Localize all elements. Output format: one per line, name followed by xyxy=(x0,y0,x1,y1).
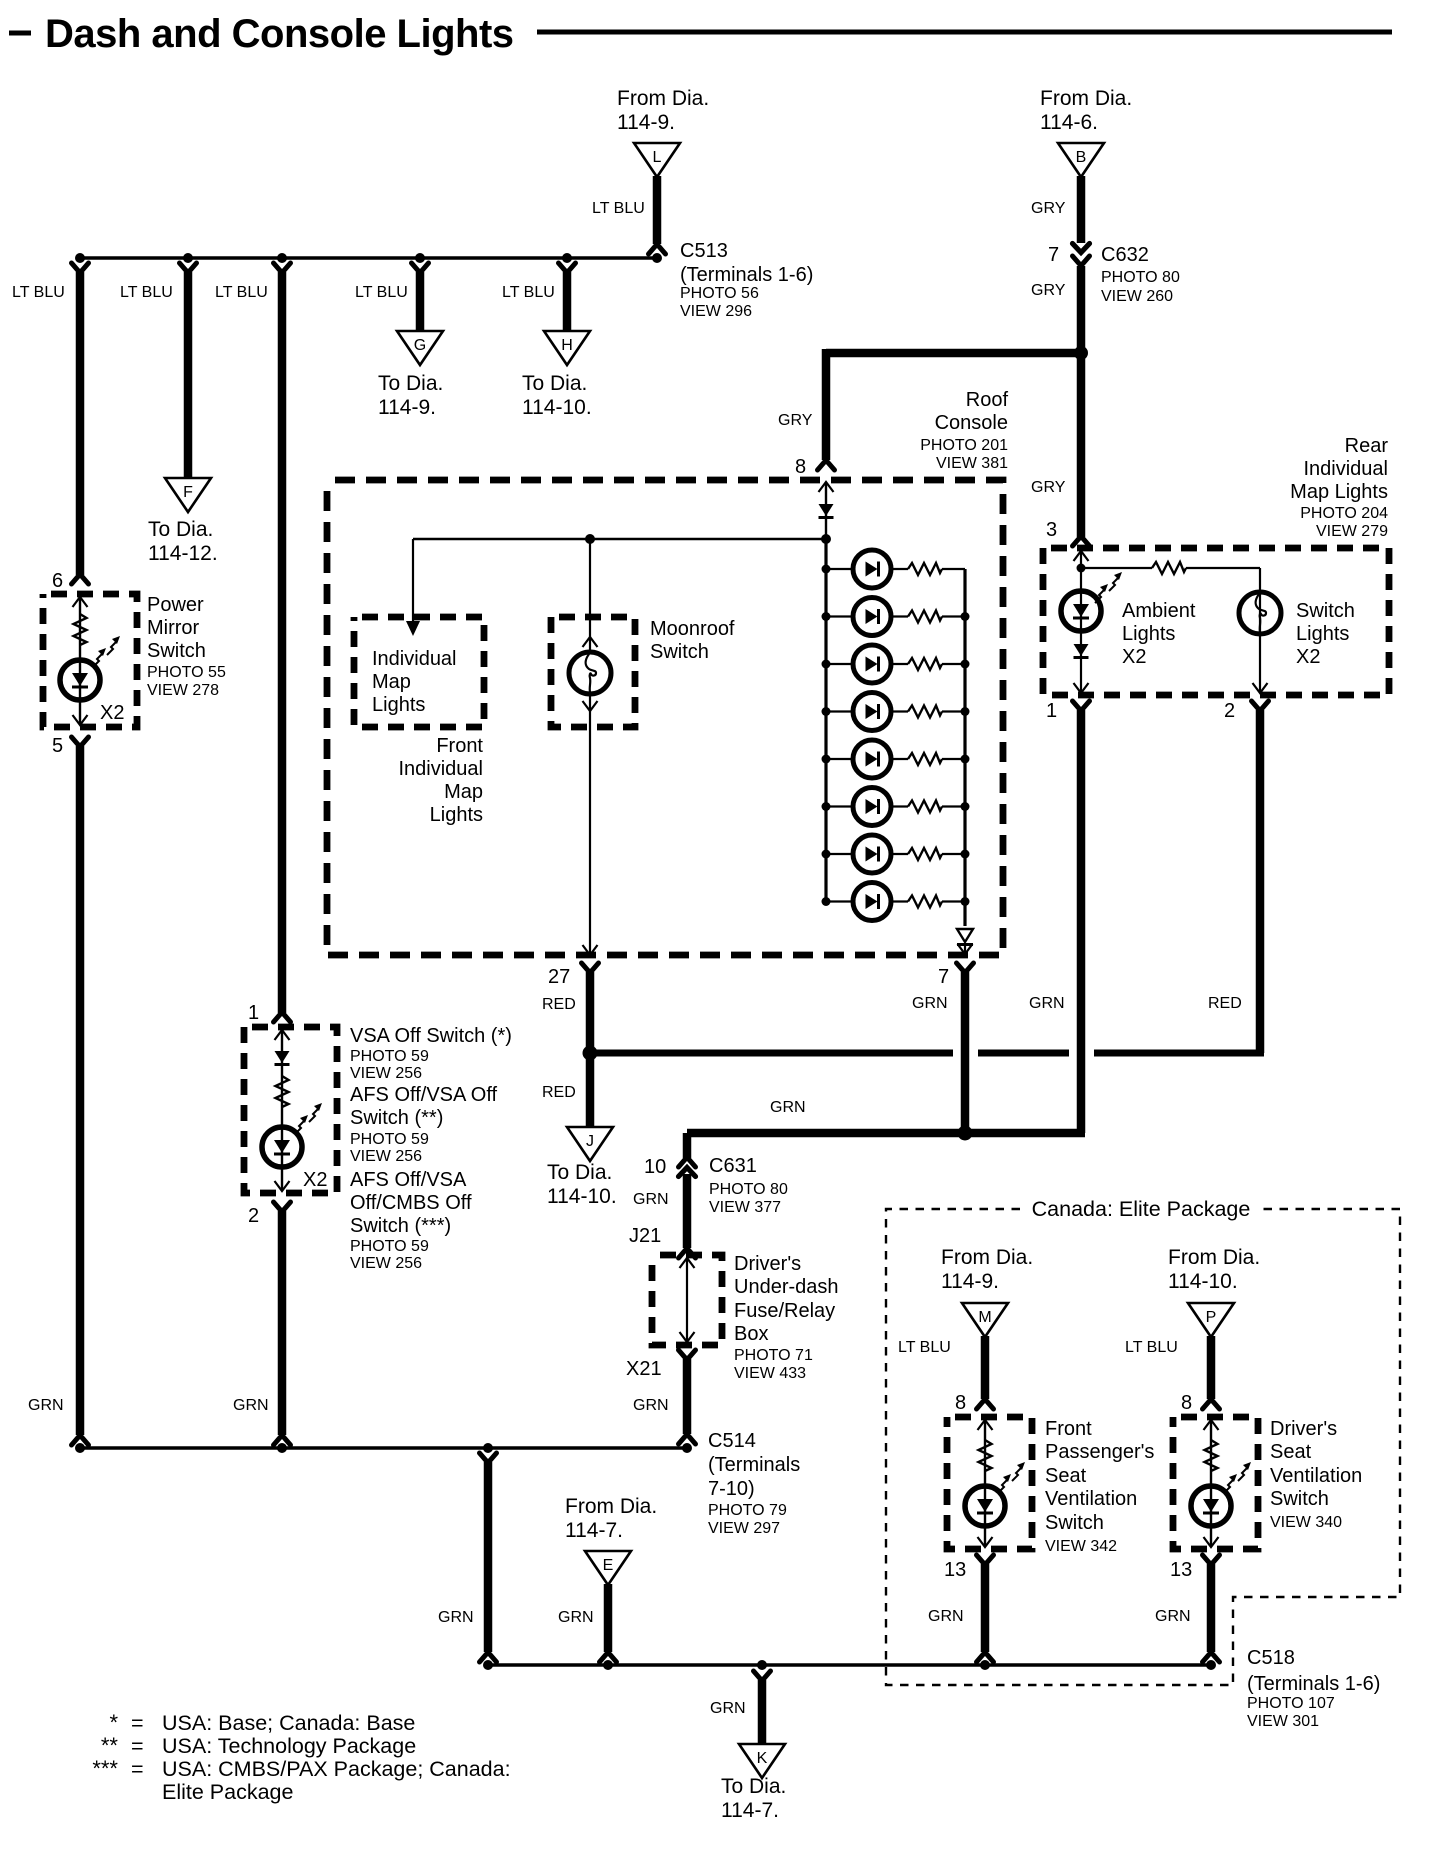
svg-text:114-7.: 114-7. xyxy=(565,1519,623,1542)
svg-text:2: 2 xyxy=(248,1205,259,1227)
wire RED from pin 2 down xyxy=(1208,710,1260,1053)
connector C631 terminal 10 xyxy=(644,1156,696,1178)
svg-text:7: 7 xyxy=(938,966,949,988)
svg-text:114-9.: 114-9. xyxy=(941,1270,999,1293)
svg-text:Map: Map xyxy=(372,671,411,693)
label Front Passenger's Seat Ventilation Switch xyxy=(1045,1418,1154,1555)
wire VSA pin 2 to GRN bus xyxy=(233,1211,291,1445)
label C518 xyxy=(1247,1647,1380,1730)
svg-text:PHOTO 107: PHOTO 107 xyxy=(1247,1695,1335,1712)
svg-text:GRY: GRY xyxy=(1031,282,1066,299)
svg-text:7: 7 xyxy=(1048,244,1059,266)
svg-text:RED: RED xyxy=(1208,995,1242,1012)
internal feed line to map lights and moonroof xyxy=(413,534,831,544)
svg-text:PHOTO 204: PHOTO 204 xyxy=(1300,505,1388,522)
svg-text:Lights: Lights xyxy=(1122,623,1175,645)
wire GRN bus down to bottom bus xyxy=(438,1453,497,1662)
label VSA Off Switch variants xyxy=(350,1025,512,1272)
svg-text:C513: C513 xyxy=(680,240,728,262)
label Driver's Under-dash Fuse/Relay Box xyxy=(734,1253,839,1382)
svg-text:GRY: GRY xyxy=(1031,479,1066,496)
Rear Individual Map Lights box xyxy=(1043,548,1389,695)
wire from L to C513 (LT BLU) xyxy=(592,176,666,254)
fuse box internal link xyxy=(680,1257,695,1343)
Power Mirror Switch box xyxy=(43,594,137,727)
svg-text:(Terminals 1-6): (Terminals 1-6) xyxy=(680,264,813,286)
svg-text:Under-dash: Under-dash xyxy=(734,1276,839,1298)
LED 8 with resistor xyxy=(822,883,970,921)
wire drop 3 (LT BLU) to VSA Off Switch pin 1 xyxy=(215,263,291,1013)
svg-text:Individual: Individual xyxy=(372,648,457,670)
svg-text:PHOTO 71: PHOTO 71 xyxy=(734,1347,813,1364)
svg-text:J21: J21 xyxy=(629,1225,661,1247)
wire RED horizontal with crossovers xyxy=(594,1050,1264,1057)
svg-text:PHOTO 56: PHOTO 56 xyxy=(680,285,759,302)
svg-text:VIEW 342: VIEW 342 xyxy=(1045,1538,1117,1555)
LED 7 with resistor xyxy=(822,835,970,873)
svg-text:C632: C632 xyxy=(1101,244,1149,266)
connector triangle F (To Dia. 114-12.) xyxy=(165,478,211,512)
wire RED to J xyxy=(542,1053,590,1126)
wire from bottom bus to K (GRN) xyxy=(710,1671,771,1743)
svg-text:Map Lights: Map Lights xyxy=(1290,481,1388,503)
connector C632 terminal 7 xyxy=(1048,244,1090,267)
svg-text:*: * xyxy=(109,1710,118,1735)
svg-text:6: 6 xyxy=(52,570,63,592)
svg-text:VIEW 256: VIEW 256 xyxy=(350,1255,422,1272)
Power Mirror Switch internals (resistor + LED X2) xyxy=(60,596,124,725)
svg-text:Individual: Individual xyxy=(398,758,483,780)
front passenger vent switch internals (resistor + LED) xyxy=(965,1419,1025,1547)
LED 4 with resistor xyxy=(822,693,970,731)
svg-text:Canada: Elite Package: Canada: Elite Package xyxy=(1032,1197,1251,1221)
svg-text:AFS Off/VSA Off: AFS Off/VSA Off xyxy=(350,1084,498,1106)
wire GRY branch to Roof Console pin 8 xyxy=(778,349,1081,460)
connector triangle E (From Dia. 114-7.) xyxy=(565,1495,657,1542)
pin 3 of Rear Individual Map Lights xyxy=(1046,519,1090,546)
svg-text:PHOTO 59: PHOTO 59 xyxy=(350,1048,429,1065)
svg-text:Driver's: Driver's xyxy=(1270,1418,1337,1440)
svg-text:Lights: Lights xyxy=(430,804,483,826)
label C631 xyxy=(709,1155,788,1216)
junction at GRY split xyxy=(1074,346,1088,360)
svg-text:13: 13 xyxy=(944,1559,966,1581)
Moonroof Switch box xyxy=(551,617,635,727)
svg-text:USA: Base; Canada: Base: USA: Base; Canada: Base xyxy=(162,1711,415,1735)
svg-text:Switch: Switch xyxy=(650,641,709,663)
svg-text:1: 1 xyxy=(1046,700,1057,722)
svg-text:Ventilation: Ventilation xyxy=(1045,1488,1137,1510)
title: Dash and Console Lights xyxy=(9,12,1392,56)
svg-text:LT BLU: LT BLU xyxy=(355,284,408,301)
label Roof Console xyxy=(920,389,1008,472)
svg-text:Front: Front xyxy=(1045,1418,1092,1440)
svg-text:GRN: GRN xyxy=(1155,1608,1191,1625)
svg-text:5: 5 xyxy=(52,735,63,757)
wire: GRN bus to C514 xyxy=(80,1446,687,1450)
svg-text:GRN: GRN xyxy=(558,1609,594,1626)
svg-text:Moonroof: Moonroof xyxy=(650,618,735,640)
svg-text:GRN: GRN xyxy=(928,1608,964,1625)
label C514 xyxy=(708,1430,800,1537)
label Individual Map Lights xyxy=(372,648,457,716)
svg-text:Map: Map xyxy=(444,781,483,803)
svg-text:USA: CMBS/PAX Package; Canada:: USA: CMBS/PAX Package; Canada: xyxy=(162,1757,511,1781)
svg-text:To Dia.: To Dia. xyxy=(721,1775,786,1798)
junction dots on bottom bus xyxy=(483,1660,1216,1670)
svg-text:Box: Box xyxy=(734,1323,768,1345)
LED 2 with resistor xyxy=(822,598,970,636)
svg-text:VSA Off Switch (*): VSA Off Switch (*) xyxy=(350,1025,512,1047)
svg-text:**: ** xyxy=(101,1733,119,1758)
svg-text:(Terminals 1-6): (Terminals 1-6) xyxy=(1247,1673,1380,1695)
svg-text:F: F xyxy=(183,484,193,501)
svg-text:USA: Technology Package: USA: Technology Package xyxy=(162,1734,416,1758)
svg-text:=: = xyxy=(131,1711,144,1735)
wire pin5 to GRN bus xyxy=(28,746,89,1445)
wire from P (LT BLU) to driver vent switch pin 8 xyxy=(1125,1336,1220,1409)
svg-text:K: K xyxy=(757,1750,768,1767)
svg-text:To Dia.: To Dia. xyxy=(148,518,213,541)
svg-text:H: H xyxy=(561,337,573,354)
connector triangle L (From Dia. 114-9.) xyxy=(617,87,709,134)
pin 8 of Roof Console xyxy=(795,456,835,478)
svg-text:LT BLU: LT BLU xyxy=(120,284,173,301)
label Ambient Lights X2 xyxy=(1122,600,1196,668)
svg-text:GRY: GRY xyxy=(1031,200,1066,217)
svg-text:LT BLU: LT BLU xyxy=(12,284,65,301)
svg-text:VIEW 296: VIEW 296 xyxy=(680,303,752,320)
connector triangle K (To Dia. 114-7.) xyxy=(739,1744,785,1778)
junction RED xyxy=(583,1046,598,1061)
svg-text:From Dia.: From Dia. xyxy=(941,1246,1033,1269)
wire drop 4 (LT BLU) to G xyxy=(355,263,429,333)
svg-text:From Dia.: From Dia. xyxy=(1168,1246,1260,1269)
pin 27 of Roof Console xyxy=(548,945,599,988)
svg-text:Individual: Individual xyxy=(1303,458,1388,480)
svg-text:114-9.: 114-9. xyxy=(617,111,675,134)
svg-text:PHOTO 80: PHOTO 80 xyxy=(1101,269,1180,286)
svg-text:Dash and Console Lights: Dash and Console Lights xyxy=(45,12,514,56)
svg-text:GRN: GRN xyxy=(28,1397,64,1414)
svg-text:13: 13 xyxy=(1170,1559,1192,1581)
svg-text:To Dia.: To Dia. xyxy=(547,1161,612,1184)
Driver's Seat Ventilation Switch box xyxy=(1173,1417,1258,1549)
arrow into Individual Map Lights xyxy=(406,539,420,636)
svg-text:VIEW 377: VIEW 377 xyxy=(709,1199,781,1216)
svg-text:Power: Power xyxy=(147,594,204,616)
svg-text:Switch (***): Switch (***) xyxy=(350,1215,451,1237)
pin 13 of Front Passenger vent switch xyxy=(944,1555,994,1581)
svg-text:VIEW 381: VIEW 381 xyxy=(936,455,1008,472)
svg-text:Off/CMBS Off: Off/CMBS Off xyxy=(350,1192,472,1214)
svg-text:VIEW 297: VIEW 297 xyxy=(708,1520,780,1537)
svg-text:E: E xyxy=(603,1557,614,1574)
LED chain right bus xyxy=(963,569,966,926)
svg-text:PHOTO 80: PHOTO 80 xyxy=(709,1181,788,1198)
label Rear Individual Map Lights xyxy=(1290,435,1388,540)
diode at bottom of LED chain xyxy=(957,929,973,954)
svg-text:RED: RED xyxy=(542,1084,576,1101)
svg-text:VIEW 256: VIEW 256 xyxy=(350,1065,422,1082)
junction GRN xyxy=(958,1126,973,1141)
label Front Individual Map Lights xyxy=(398,735,483,826)
svg-text:Fuse/Relay: Fuse/Relay xyxy=(734,1300,835,1322)
pin 6 of Power Mirror Switch xyxy=(52,570,89,592)
pin 1 of Rear Individual Map Lights xyxy=(1046,700,1090,722)
wire GRN driver pin 13 to bottom bus xyxy=(1155,1564,1220,1662)
svg-text:LT BLU: LT BLU xyxy=(215,284,268,301)
Roof Console box xyxy=(327,480,1003,955)
svg-text:J: J xyxy=(586,1133,594,1150)
svg-text:PHOTO 55: PHOTO 55 xyxy=(147,664,226,681)
svg-text:X2: X2 xyxy=(1296,646,1320,668)
wire from B to C632 (GRY) xyxy=(1031,176,1081,243)
connector triangle B (From Dia. 114-6.) xyxy=(1040,87,1132,134)
pin 5 of Power Mirror Switch xyxy=(52,735,89,757)
LED 6 with resistor xyxy=(822,788,970,826)
svg-text:2: 2 xyxy=(1224,700,1235,722)
wire C632 to junction (GRY) xyxy=(1031,266,1081,353)
svg-text:7-10): 7-10) xyxy=(708,1478,755,1500)
connector triangle P (From Dia. 114-10.) xyxy=(1168,1246,1260,1293)
svg-text:LT BLU: LT BLU xyxy=(592,200,645,217)
svg-text:114-7.: 114-7. xyxy=(721,1799,779,1822)
svg-text:Roof: Roof xyxy=(966,389,1009,411)
wire GRN C631 to J21 xyxy=(633,1174,687,1248)
connector triangle G (To Dia. 114-9.) xyxy=(397,331,443,365)
wire: C513 bus (terminals 1-6) xyxy=(80,256,657,260)
svg-text:GRN: GRN xyxy=(633,1397,669,1414)
svg-text:PHOTO 59: PHOTO 59 xyxy=(350,1238,429,1255)
svg-text:VIEW 301: VIEW 301 xyxy=(1247,1713,1319,1730)
svg-text:G: G xyxy=(414,337,426,354)
svg-text:=: = xyxy=(131,1757,144,1781)
svg-text:1: 1 xyxy=(248,1002,259,1024)
Front Passenger Seat Ventilation Switch box xyxy=(947,1417,1032,1549)
svg-text:C518: C518 xyxy=(1247,1647,1295,1669)
svg-text:Ambient: Ambient xyxy=(1122,600,1196,622)
label C513 xyxy=(680,240,813,320)
svg-text:GRY: GRY xyxy=(778,412,813,429)
wire GRY to Rear Map Lights pin 3 xyxy=(1031,353,1081,537)
svg-text:M: M xyxy=(978,1309,991,1326)
svg-text:114-6.: 114-6. xyxy=(1040,111,1098,134)
LED 5 with resistor xyxy=(822,740,970,778)
rear box resistor to switch lights xyxy=(1081,562,1260,574)
svg-text:X2: X2 xyxy=(100,702,124,724)
svg-text:8: 8 xyxy=(955,1392,966,1414)
driver vent switch internals (resistor + LED) xyxy=(1191,1419,1251,1547)
svg-text:GRN: GRN xyxy=(1029,995,1065,1012)
wire drop 1 (LT BLU) to Power Mirror Switch pin 6 xyxy=(12,263,89,575)
connector triangle H (To Dia. 114-10.) xyxy=(544,331,590,365)
svg-text:From Dia.: From Dia. xyxy=(565,1495,657,1518)
label C632 xyxy=(1101,244,1180,305)
wire GRN pin 13 to bottom bus xyxy=(928,1564,994,1662)
connector triangle M (From Dia. 114-9.) xyxy=(941,1246,1033,1293)
svg-text:Rear: Rear xyxy=(1345,435,1389,457)
svg-text:114-10.: 114-10. xyxy=(1168,1270,1238,1293)
svg-text:Lights: Lights xyxy=(1296,623,1349,645)
LED 1 with resistor xyxy=(822,550,966,588)
svg-text:(Terminals: (Terminals xyxy=(708,1454,800,1476)
svg-text:B: B xyxy=(1076,149,1087,166)
moonroof switch bulb xyxy=(569,539,611,954)
svg-text:***: *** xyxy=(92,1756,118,1781)
svg-text:RED: RED xyxy=(542,996,576,1013)
svg-text:114-12.: 114-12. xyxy=(148,542,218,565)
svg-text:VIEW 279: VIEW 279 xyxy=(1316,523,1388,540)
svg-text:To Dia.: To Dia. xyxy=(378,372,443,395)
svg-text:GRN: GRN xyxy=(438,1609,474,1626)
label Driver's Seat Ventilation Switch xyxy=(1270,1418,1362,1531)
svg-text:3: 3 xyxy=(1046,519,1057,541)
svg-text:VIEW 256: VIEW 256 xyxy=(350,1148,422,1165)
svg-text:X2: X2 xyxy=(1122,646,1146,668)
svg-text:C514: C514 xyxy=(708,1430,756,1452)
svg-text:114-10.: 114-10. xyxy=(547,1185,617,1208)
svg-text:GRN: GRN xyxy=(633,1191,669,1208)
svg-text:Console: Console xyxy=(935,412,1008,434)
pin 13 of Driver's vent switch xyxy=(1170,1555,1220,1581)
svg-text:8: 8 xyxy=(1181,1392,1192,1414)
svg-text:114-9.: 114-9. xyxy=(378,396,436,419)
svg-text:Mirror: Mirror xyxy=(147,617,200,639)
VSA Off Switch box xyxy=(244,1027,337,1193)
wire drop 5 (LT BLU) to H xyxy=(502,263,576,333)
svg-text:PHOTO 79: PHOTO 79 xyxy=(708,1502,787,1519)
svg-text:10: 10 xyxy=(644,1156,666,1178)
roof console feed: diode at pin 8 xyxy=(819,482,834,539)
svg-text:Switch: Switch xyxy=(1296,600,1355,622)
svg-text:Elite Package: Elite Package xyxy=(162,1780,293,1804)
wire GRN horizontal to C631 xyxy=(687,1099,1085,1158)
label Power Mirror Switch xyxy=(147,594,226,699)
LED chain left bus xyxy=(824,539,827,901)
svg-text:P: P xyxy=(1206,1309,1217,1326)
svg-text:PHOTO 59: PHOTO 59 xyxy=(350,1131,429,1148)
svg-text:LT BLU: LT BLU xyxy=(1125,1339,1178,1356)
Canada: Elite Package boundary xyxy=(886,1209,1400,1685)
svg-text:VIEW 433: VIEW 433 xyxy=(734,1365,806,1382)
svg-text:GRN: GRN xyxy=(770,1099,806,1116)
svg-text:GRN: GRN xyxy=(912,995,948,1012)
svg-text:L: L xyxy=(653,149,662,166)
svg-text:PHOTO 201: PHOTO 201 xyxy=(920,437,1008,454)
svg-text:Lights: Lights xyxy=(372,694,425,716)
svg-text:LT BLU: LT BLU xyxy=(502,284,555,301)
svg-text:X21: X21 xyxy=(626,1358,662,1380)
wire GRN from pin 7 down xyxy=(912,972,965,1133)
svg-text:Passenger's: Passenger's xyxy=(1045,1441,1154,1463)
junction dots on C513 bus xyxy=(75,253,662,263)
LED 3 with resistor xyxy=(822,645,970,683)
VSA Off Switch internals (diode, resistor, LED X2) xyxy=(262,1029,327,1191)
label Switch Lights X2 xyxy=(1296,600,1355,668)
svg-text:VIEW 340: VIEW 340 xyxy=(1270,1514,1342,1531)
footnote legend xyxy=(92,1710,510,1804)
pin 7 of Roof Console xyxy=(938,963,974,988)
Individual Map Lights box xyxy=(354,617,484,727)
svg-text:Switch: Switch xyxy=(1270,1488,1329,1510)
wire GRN from pin 1 down xyxy=(1029,710,1081,1133)
svg-text:Switch (**): Switch (**) xyxy=(350,1107,443,1129)
svg-text:From Dia.: From Dia. xyxy=(617,87,709,110)
svg-text:C631: C631 xyxy=(709,1155,757,1177)
svg-text:Seat: Seat xyxy=(1045,1465,1087,1487)
label Moonroof Switch xyxy=(650,618,735,663)
junction dots on GRN bus xyxy=(75,1443,692,1453)
svg-text:GRN: GRN xyxy=(233,1397,269,1414)
svg-text:From Dia.: From Dia. xyxy=(1040,87,1132,110)
wire from M (LT BLU) to vent switch pin 8 xyxy=(898,1336,994,1409)
wire drop 2 (LT BLU) to F xyxy=(120,263,197,478)
svg-text:Front: Front xyxy=(436,735,483,757)
svg-text:To Dia.: To Dia. xyxy=(522,372,587,395)
svg-text:X2: X2 xyxy=(303,1169,327,1191)
wire: bottom bus C518 xyxy=(488,1663,1211,1667)
wire RED from pin 27 down to junction xyxy=(542,972,590,1051)
svg-text:GRN: GRN xyxy=(710,1700,746,1717)
svg-text:Seat: Seat xyxy=(1270,1441,1312,1463)
svg-text:VIEW 278: VIEW 278 xyxy=(147,682,219,699)
svg-text:Switch: Switch xyxy=(1045,1512,1104,1534)
wire GRN X21 to C514 xyxy=(633,1359,696,1444)
svg-text:Switch: Switch xyxy=(147,640,206,662)
wire from E to bottom bus (GRN) xyxy=(558,1584,617,1662)
svg-text:Ventilation: Ventilation xyxy=(1270,1465,1362,1487)
svg-text:8: 8 xyxy=(795,456,806,478)
pin 2 of VSA Off Switch xyxy=(248,1202,291,1227)
rear box ambient LED branch xyxy=(1061,550,1122,693)
svg-text:AFS Off/VSA: AFS Off/VSA xyxy=(350,1169,467,1191)
svg-text:LT BLU: LT BLU xyxy=(898,1339,951,1356)
Driver's Under-dash Fuse/Relay Box (J21/X21) xyxy=(652,1255,722,1345)
svg-text:VIEW 260: VIEW 260 xyxy=(1101,288,1173,305)
svg-text:=: = xyxy=(131,1734,144,1758)
svg-text:Driver's: Driver's xyxy=(734,1253,801,1275)
pin 1 of VSA Off Switch xyxy=(248,1002,291,1024)
pin 2 of Rear Individual Map Lights xyxy=(1224,700,1269,722)
svg-text:114-10.: 114-10. xyxy=(522,396,592,419)
rear box switch lights bulb xyxy=(1239,568,1281,693)
connector triangle J (To Dia. 114-10.) xyxy=(567,1127,613,1161)
svg-text:27: 27 xyxy=(548,966,570,988)
